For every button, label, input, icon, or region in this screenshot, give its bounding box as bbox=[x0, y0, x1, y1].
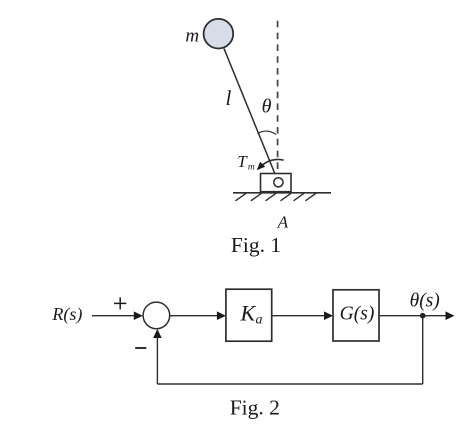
vertical dashed reference line bbox=[277, 21, 279, 177]
ground hatch 4 bbox=[281, 193, 292, 201]
arrowhead into Gs bbox=[324, 311, 333, 320]
minus sign bbox=[135, 347, 146, 349]
theta arc bbox=[257, 131, 276, 134]
svg-text:Fig. 1: Fig. 1 bbox=[231, 233, 281, 257]
pivot box bbox=[261, 174, 292, 192]
svg-text:T: T bbox=[237, 152, 248, 171]
ground line bbox=[233, 192, 331, 194]
ground hatch 6 bbox=[305, 193, 316, 201]
svg-text:θ: θ bbox=[262, 96, 272, 118]
summing junction bbox=[143, 302, 170, 329]
feedback wire down bbox=[422, 316, 424, 384]
pivot circle bbox=[274, 178, 283, 187]
svg-text:Fig. 2: Fig. 2 bbox=[230, 396, 280, 420]
plus sign bbox=[114, 302, 126, 304]
arrowhead into summer bbox=[134, 311, 143, 320]
wire summer to Ka bbox=[170, 315, 220, 317]
svg-text:R(s): R(s) bbox=[51, 304, 82, 325]
wire Gs to output bbox=[379, 315, 449, 317]
svg-text:A: A bbox=[277, 213, 289, 232]
node dot bbox=[420, 313, 426, 319]
torque arrowhead bbox=[257, 162, 266, 171]
svg-text:G(s): G(s) bbox=[340, 304, 375, 325]
rod l bbox=[224, 48, 279, 182]
ground hatch 2 bbox=[251, 193, 262, 201]
torque arc Tm bbox=[262, 159, 284, 166]
svg-text:m: m bbox=[248, 162, 255, 172]
block Ka bbox=[226, 289, 272, 341]
svg-text:K: K bbox=[239, 300, 256, 325]
arrowhead into Ka bbox=[217, 311, 226, 320]
ground hatch 1 bbox=[236, 193, 247, 201]
svg-text:θ(s): θ(s) bbox=[410, 290, 440, 311]
output arrowhead bbox=[446, 311, 455, 320]
arrowhead into summer bottom bbox=[153, 329, 162, 338]
wire Ka to Gs bbox=[272, 315, 327, 317]
mass m ball bbox=[204, 19, 234, 49]
svg-text:l: l bbox=[225, 86, 231, 110]
feedback wire bottom bbox=[157, 383, 422, 385]
svg-text:m: m bbox=[185, 26, 199, 47]
block Gs bbox=[333, 290, 379, 341]
svg-text:a: a bbox=[256, 313, 263, 328]
wire input to summer bbox=[92, 315, 137, 317]
feedback wire up bbox=[156, 335, 158, 384]
ground hatch 3 bbox=[266, 193, 277, 201]
ground hatch 5 bbox=[294, 193, 305, 201]
